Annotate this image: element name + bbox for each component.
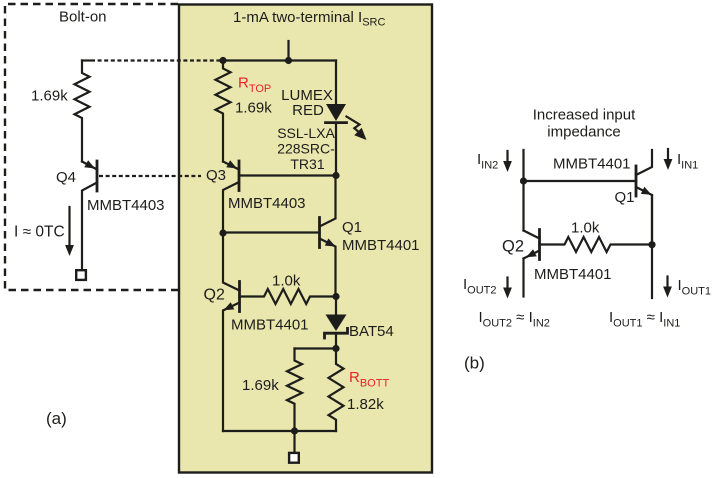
transistor Q1b base bar [635, 166, 638, 196]
transistor Q3 PNP arrow [226, 160, 237, 168]
transistor Q3 emitter diagonal [223, 162, 239, 170]
dotted wire to RTOP node [91, 59, 220, 61]
transistor Q1 collector [320, 176, 336, 227]
svg-text:TR31: TR31 [290, 156, 324, 172]
node dot bottom rail [291, 427, 298, 434]
svg-text:IIN1: IIN1 [677, 151, 698, 172]
svg-text:1.82k: 1.82k [347, 396, 384, 413]
svg-text:SSL-LXA: SSL-LXA [277, 125, 335, 141]
wire Q3 collector node to Q1 base [223, 231, 320, 233]
transistor Q1b NPN arrow [641, 187, 652, 195]
node dot LED cathode [332, 172, 339, 179]
terminal square (a) [76, 270, 86, 280]
svg-text:228SRC-: 228SRC- [277, 141, 335, 157]
svg-text:Q2: Q2 [502, 238, 524, 256]
svg-text:IIN2: IIN2 [477, 151, 498, 172]
top terminal stub [287, 41, 289, 61]
svg-text:MMBT4401: MMBT4401 [342, 237, 420, 254]
transistor Q2 base bar [238, 282, 241, 312]
wire left output (b) [522, 259, 524, 297]
current arrow IOUT1 [666, 277, 668, 287]
I-source highlighted box [179, 5, 432, 473]
svg-text:MMBT4401: MMBT4401 [231, 317, 309, 334]
svg-text:Q1: Q1 [342, 219, 362, 236]
wire LED branch top [335, 61, 337, 105]
wire node to 1.69k branch [295, 347, 337, 349]
wire node to Q1 base (b) [524, 180, 637, 182]
svg-text:IOUT2 ≈ IIN2: IOUT2 ≈ IIN2 [479, 309, 550, 330]
svg-text:BAT54: BAT54 [349, 323, 394, 340]
svg-text:Q1: Q1 [615, 189, 635, 206]
resistor 1.0k (middle) [240, 289, 337, 304]
svg-text:Bolt-on: Bolt-on [59, 9, 107, 26]
node dot right (b) [648, 241, 655, 248]
current arrow IOUT2 [506, 278, 508, 288]
resistor 1.69k (bottom) [287, 349, 302, 432]
svg-text:MMBT4403: MMBT4403 [87, 197, 165, 214]
svg-text:Q3: Q3 [206, 167, 226, 184]
wire right branch (b) [651, 195, 653, 298]
svg-text:Increased input: Increased input [533, 107, 636, 124]
wire node down to Q2 collector [223, 233, 240, 291]
LED diode triangle [326, 104, 346, 121]
transistor Q2 emitter diagonal [223, 303, 240, 432]
svg-text:Q2: Q2 [204, 287, 225, 304]
svg-text:I ≈ 0TC: I ≈ 0TC [14, 224, 65, 241]
wire Q3 base to LED node [239, 174, 336, 176]
resistor 1.0k (b) [540, 237, 653, 252]
current arrow I~0TC [68, 207, 70, 245]
svg-text:IOUT1: IOUT1 [678, 277, 712, 298]
dotted wire Q4 base to Q3 [99, 175, 201, 177]
svg-text:Q4: Q4 [56, 169, 76, 186]
wire LED cathode to node [335, 124, 337, 176]
transistor Q4 emitter diagonal [82, 162, 97, 170]
svg-text:1.0k: 1.0k [272, 273, 301, 290]
resistor 1.69k (bolt-on) [75, 61, 90, 162]
wire bottom rail [223, 430, 336, 432]
svg-text:impedance: impedance [547, 124, 620, 141]
svg-text:MMBT4401: MMBT4401 [553, 156, 631, 173]
svg-text:IOUT1 ≈ IIN1: IOUT1 ≈ IIN1 [609, 309, 680, 330]
node dot BAT54 cathode [332, 345, 339, 352]
transistor Q1b collector [636, 150, 652, 175]
svg-text:1.0k: 1.0k [571, 220, 600, 237]
node dot left (b) [520, 177, 527, 184]
transistor Q1 emitter diagonal [320, 239, 336, 297]
node dot top rail RTOP [219, 57, 226, 64]
resistor RTOP 1.69k [216, 61, 231, 162]
current arrow IIN1 [667, 149, 669, 159]
wire BAT54 cathode to node [335, 334, 337, 349]
svg-text:(b): (b) [464, 354, 485, 373]
resistor RBOTT 1.82k [329, 349, 344, 432]
svg-text:1.69k: 1.69k [31, 88, 68, 105]
LED cathode bar [326, 121, 347, 124]
current arrow IIN2 [506, 151, 508, 161]
svg-text:IOUT2: IOUT2 [463, 276, 497, 297]
transistor Q1 base bar [318, 218, 321, 248]
bolt-on dashed enclosure [5, 4, 178, 290]
node dot Q3 collector [219, 229, 226, 236]
svg-text:(a): (a) [46, 409, 67, 428]
svg-text:MMBT4403: MMBT4403 [228, 195, 306, 212]
transistor Q2b base bar [538, 230, 541, 260]
diode BAT54 triangle [326, 315, 347, 332]
wire left input (b) [522, 150, 524, 231]
terminal square (mid) [289, 453, 299, 463]
transistor Q1 NPN arrow [325, 238, 336, 246]
wire top rail [223, 59, 336, 61]
node dot Q1 emitter [332, 293, 339, 300]
transistor Q2b emitter diagonal [524, 251, 540, 259]
LED light arrow [347, 117, 361, 134]
transistor Q3 base bar [238, 161, 241, 191]
transistor Q1b emitter diagonal [636, 187, 652, 245]
wire bottom terminal stub [293, 431, 295, 452]
transistor Q4 base bar [96, 161, 99, 191]
diode BAT54 anode wire [335, 297, 337, 315]
svg-text:RED: RED [292, 102, 324, 119]
wire bolt-on resistor top stub [82, 59, 90, 61]
diode BAT54 schottky bar [325, 328, 348, 338]
svg-text:1.69k: 1.69k [242, 377, 279, 394]
transistor Q2b collector diagonal [524, 231, 540, 239]
node dot top rail stub [285, 57, 292, 64]
transistor Q4 PNP arrow [84, 160, 95, 168]
transistor Q3 collector [223, 182, 239, 233]
svg-text:MMBT4401: MMBT4401 [534, 266, 612, 283]
transistor Q4 collector [82, 183, 97, 270]
transistor Q2 NPN arrow [224, 302, 235, 310]
transistor Q2b NPN arrow [526, 249, 537, 257]
svg-text:1.69k: 1.69k [235, 100, 272, 117]
